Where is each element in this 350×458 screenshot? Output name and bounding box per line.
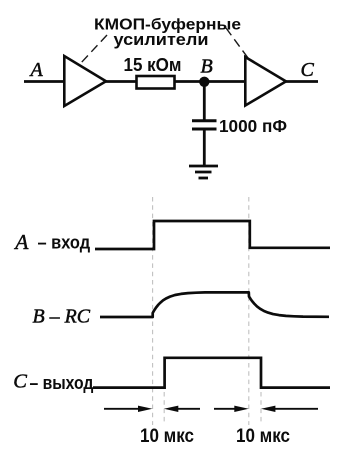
resistor R (15 кОм) (137, 76, 175, 89)
svg-text:C: C (301, 59, 315, 81)
dashed timing tick t1+10мкс (163, 392, 165, 424)
op-amp buffer U2 (245, 57, 286, 106)
op-amp buffer U1 (64, 56, 106, 106)
waveform trace A (input) (95, 221, 330, 249)
dimension arrow: into t1 from left (104, 406, 152, 412)
svg-text:C: C (13, 370, 27, 392)
wire: resistor to node B to U2 (175, 80, 246, 83)
dashed timing gridline t2 (248, 197, 250, 425)
svg-text:B – RC: B – RC (33, 305, 91, 327)
leader line (dashed) to buffer U2 (226, 28, 248, 58)
svg-text:15 кОм: 15 кОм (124, 54, 182, 75)
capacitor C1 (top plate) (192, 119, 217, 122)
node B junction dot (199, 77, 209, 87)
dimension arrow: from right toward t2 (tip at C fall) (261, 406, 318, 412)
svg-text:– вход: – вход (38, 232, 91, 252)
wire: node B down to capacitor (203, 82, 206, 120)
waveform trace B (RC node) (100, 292, 329, 317)
leader line (dashed) to buffer U1 (80, 35, 107, 64)
svg-text:усилители: усилители (114, 30, 209, 49)
dimension arrow: into t2 from left (214, 406, 249, 412)
dimension arrow: from right toward t1 (tip at C rise) (164, 406, 200, 412)
waveform trace C (output) (93, 358, 330, 388)
dashed timing tick t2+10мкс (260, 392, 262, 424)
svg-text:B: B (201, 55, 213, 77)
capacitor C1 (bottom plate) (192, 128, 217, 131)
dashed timing gridline t1 (152, 197, 154, 425)
svg-text:– выход: – выход (30, 373, 94, 393)
ground symbol (189, 166, 218, 178)
wire: capacitor to ground (203, 129, 206, 166)
wire: input A to U1 (24, 80, 64, 83)
svg-text:A: A (29, 59, 44, 81)
annotation text: КМОП-буферные усилители (94, 17, 241, 49)
svg-text:A: A (13, 230, 29, 254)
wire: U1 output to resistor (104, 80, 137, 83)
svg-text:1000 пФ: 1000 пФ (219, 116, 287, 136)
wire: U2 output to C (285, 80, 318, 83)
svg-text:10 мкс: 10 мкс (140, 426, 194, 447)
svg-text:10 мкс: 10 мкс (236, 426, 290, 447)
